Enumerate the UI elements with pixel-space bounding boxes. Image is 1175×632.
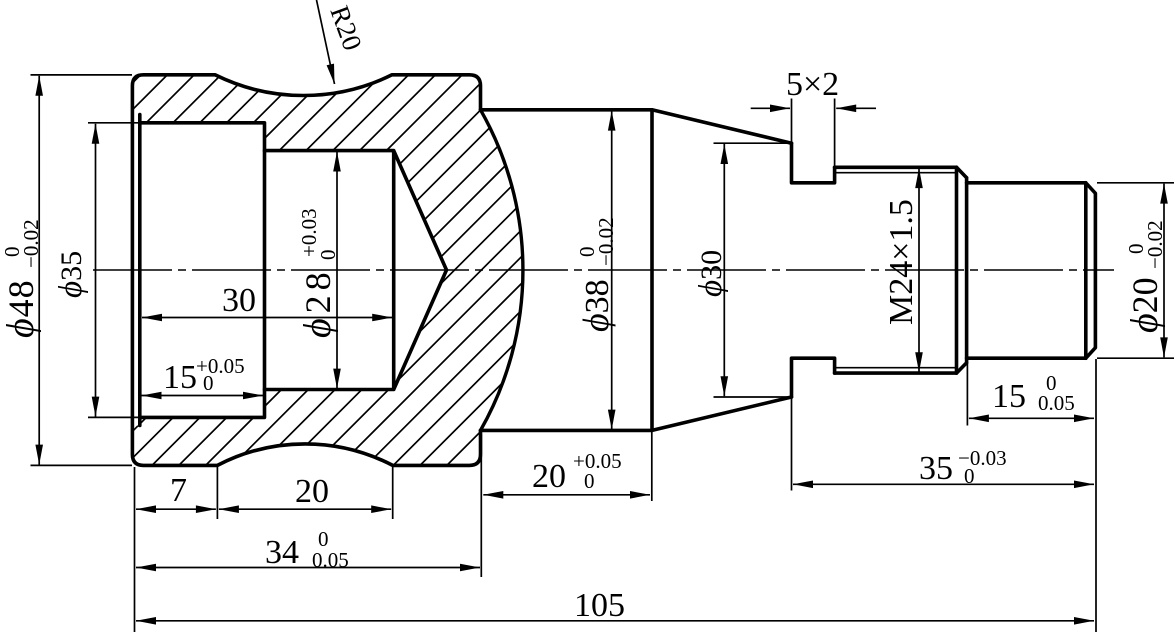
phi35 rotated (53, 251, 89, 298)
svg-text:ϕ35: ϕ35 (53, 251, 89, 298)
R20 leader (317, 0, 335, 84)
dim line 35 (793, 483, 1094, 485)
phi30 rotated (693, 250, 729, 297)
phi20 end chamfer (1086, 183, 1096, 358)
dim line dia-30 (723, 144, 725, 396)
svg-text:ϕ30: ϕ30 (693, 250, 729, 297)
extension line left face (7/34/105) (134, 467, 136, 632)
dim line 15 right (969, 417, 1094, 419)
dim line 5x2 right (836, 107, 876, 109)
dim line 20+0.05 (483, 494, 650, 496)
dim line dia-48 (38, 76, 40, 465)
dim line 34 (136, 567, 480, 569)
centerline (axis) (93, 269, 1114, 271)
svg-text:0: 0 (964, 464, 975, 488)
extension lines for dia-35 (88, 123, 140, 418)
svg-text:−0.02: −0.02 (19, 219, 43, 268)
thread M24 major (835, 167, 957, 373)
svg-text:30: 30 (222, 282, 256, 319)
extension lines for groove 5x2 (792, 99, 835, 168)
svg-text:34: 34 (265, 534, 299, 571)
svg-text:5×2: 5×2 (786, 66, 839, 103)
dim line 105 (136, 620, 1094, 622)
extension line right face (15/35/105) (1095, 359, 1097, 632)
dim line dia-20 (1163, 184, 1165, 358)
phi38 0/-0.02 rotated (575, 217, 618, 332)
bore 35 (140, 123, 265, 418)
part outline (132, 75, 1095, 466)
hatching of flange cross-section (125, 65, 530, 475)
extension line flange right face (20/34) (480, 434, 482, 577)
groove 5x2 (792, 143, 835, 397)
bore mouth line (138, 115, 142, 426)
svg-text:0.05: 0.05 (312, 548, 349, 572)
extension line shoulder (15) (966, 363, 968, 426)
svg-text:−0.02: −0.02 (594, 217, 618, 266)
bore 28 and cone (265, 151, 447, 390)
svg-text:ϕ20: ϕ20 (1124, 277, 1166, 333)
extension line taper end (35) (791, 397, 793, 491)
svg-text:20: 20 (532, 458, 566, 495)
svg-text:15: 15 (163, 359, 197, 396)
extension lines for dia-20 (1097, 183, 1174, 358)
phi28 +0.03/0 rotated (297, 208, 340, 338)
svg-text:15: 15 (992, 378, 1026, 415)
svg-text:35: 35 (919, 450, 953, 487)
dim line dia-28 (336, 152, 338, 389)
svg-text:20: 20 (295, 473, 329, 510)
svg-text:0: 0 (316, 250, 340, 261)
dim line 30 (142, 317, 392, 319)
svg-text:0: 0 (584, 469, 595, 493)
phi20 0/-0.02 rotated (1124, 220, 1167, 333)
svg-text:0: 0 (203, 371, 214, 395)
dim line 7 (136, 508, 216, 510)
extension lines for 7 and 20 (217, 467, 392, 519)
dim line 15 bore depth (142, 395, 264, 397)
extension lines for dia-30 (714, 143, 792, 397)
taper (652, 110, 792, 431)
phi20 section (967, 183, 1086, 358)
extension line taper start (20) (651, 432, 653, 501)
local-section break arc (481, 110, 523, 431)
dim line 20 (219, 508, 391, 510)
svg-text:−0.02: −0.02 (1143, 220, 1167, 269)
dim line dia-38 (611, 111, 613, 430)
phi38 section (481, 110, 653, 431)
svg-text:+0.05: +0.05 (573, 449, 622, 473)
svg-text:ϕ48: ϕ48 (0, 279, 42, 338)
dim line M24 thread (918, 168, 920, 372)
flange outer profile (132, 75, 480, 466)
svg-text:0.05: 0.05 (1038, 391, 1075, 415)
M24x1.5 rotated (883, 199, 920, 325)
svg-text:7: 7 (170, 472, 187, 509)
dim line 5x2 left (751, 107, 790, 109)
thread minor lines (836, 173, 958, 368)
svg-text:M24×1.5: M24×1.5 (883, 199, 920, 325)
svg-text:ϕ28: ϕ28 (297, 267, 339, 338)
extension lines for dia-48 (31, 75, 133, 466)
svg-text:ϕ38: ϕ38 (576, 279, 616, 332)
thread end chamfer + step face (957, 167, 967, 373)
phi48 0/-0.02 rotated (0, 219, 43, 338)
svg-text:105: 105 (574, 587, 625, 624)
dim line dia-35 (95, 124, 97, 417)
